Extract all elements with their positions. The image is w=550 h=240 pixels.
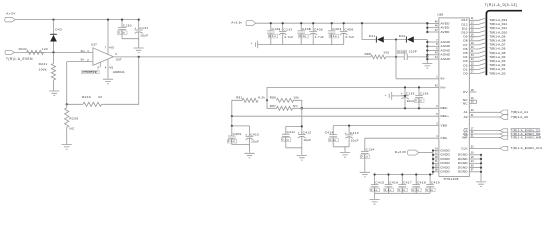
- node rail/diode junction: [361, 22, 363, 24]
- svg-text:0.1u: 0.1u: [412, 188, 419, 192]
- wire DVDD pin 4: [433, 162, 439, 164]
- svg-text:NC: NC: [463, 101, 468, 105]
- resistor R87 (NC): [277, 106, 293, 110]
- ADC U38 body: [439, 18, 469, 177]
- diode D22: [405, 36, 407, 42]
- wire clock pin CLK: [469, 147, 500, 149]
- node C409 rail junction: [231, 125, 233, 127]
- svg-text:+: +: [298, 130, 300, 134]
- resistor R81: [242, 98, 258, 102]
- svg-text:0.1u: 0.1u: [282, 137, 289, 141]
- ground below C414/C413: [340, 153, 350, 158]
- svg-text:A0: A0: [464, 115, 468, 119]
- wire digital ground stub: [374, 193, 376, 199]
- svg-text:D22: D22: [399, 34, 406, 38]
- svg-text:D0: D0: [463, 71, 467, 75]
- resistor R240: [83, 102, 102, 106]
- capacitor C405: [297, 23, 305, 44]
- svg-text:+: +: [385, 93, 387, 97]
- svg-text:DVDD: DVDD: [441, 170, 451, 174]
- capacitor C132: [267, 23, 275, 44]
- resistor R86: [277, 98, 294, 102]
- svg-text:REF+: REF+: [441, 114, 450, 118]
- svg-text:DISABLE: DISABLE: [82, 70, 97, 74]
- svg-text:R81: R81: [236, 96, 242, 100]
- wire to IN+ pin: [267, 87, 439, 100]
- node +VS rail junction: [107, 19, 109, 21]
- svg-text:10uF: 10uF: [351, 138, 359, 142]
- svg-text:C413: C413: [350, 131, 359, 135]
- capacitor C409: [228, 126, 236, 145]
- node REF+/R81 junction: [231, 115, 233, 117]
- svg-text:R88: R88: [365, 52, 371, 56]
- svg-text:R86: R86: [270, 96, 276, 100]
- wire control pin WR: [469, 137, 500, 139]
- svg-text:220P: 220P: [409, 50, 417, 54]
- ground below C415-C419: [370, 200, 380, 205]
- svg-text:C131: C131: [140, 26, 149, 30]
- diode D21: [375, 36, 377, 42]
- svg-text:C406: C406: [314, 27, 323, 31]
- wire AGND bus vertical: [426, 40, 428, 64]
- capacitor C407: [328, 23, 336, 44]
- wire data pin D6: [469, 47, 485, 49]
- svg-text:DGND: DGND: [458, 170, 468, 174]
- svg-text:OV: OV: [463, 90, 469, 94]
- svg-text:CML: CML: [441, 136, 448, 140]
- wire DVDD pin 3: [433, 158, 439, 160]
- capacitor C411: [282, 126, 290, 147]
- svg-text:T(R)1-A_A0: T(R)1-A_A0: [511, 115, 528, 119]
- ground below R241: [49, 91, 59, 96]
- node clamp junction: [395, 38, 397, 40]
- capacitor C134: [361, 138, 369, 171]
- connector tag T(R)1-A_EVEN_OE: [500, 132, 508, 136]
- svg-text:U37: U37: [91, 43, 97, 47]
- wire data pin D0: [469, 72, 485, 74]
- wire AVDD pin 2: [427, 27, 439, 29]
- svg-text:REF-: REF-: [441, 106, 449, 110]
- capacitor C412: [298, 126, 306, 147]
- wire bank ground rail: [258, 44, 344, 46]
- node signal/clamp junction: [395, 56, 397, 58]
- capacitor C416: [385, 175, 393, 194]
- wire +VS vertical: [107, 20, 109, 55]
- svg-text:R240: R240: [82, 95, 91, 99]
- ground below C411/C412: [297, 156, 307, 161]
- svg-text:D21: D21: [369, 34, 376, 38]
- wire OVR pin stub: [469, 91, 476, 93]
- connector tag T(R)1-A_A1: [500, 110, 508, 115]
- wire address pin A1: [469, 111, 500, 113]
- capacitor C406: [309, 23, 317, 44]
- capacitor C413: [345, 126, 353, 147]
- wire DGND pin 4: [469, 167, 481, 169]
- svg-text:10uF: 10uF: [303, 138, 311, 142]
- ground below C130/C131: [134, 48, 144, 53]
- svg-text:4.7uF: 4.7uF: [284, 35, 293, 39]
- capacitor C136: [415, 87, 423, 108]
- svg-text:330: 330: [383, 51, 389, 55]
- svg-text:T(R)1-A_EVEN: T(R)1-A_EVEN: [6, 57, 33, 61]
- wire to IN- pin: [396, 78, 439, 80]
- svg-text:0.1u: 0.1u: [415, 99, 422, 103]
- svg-text:C418: C418: [417, 181, 426, 185]
- wire AGND pin 2: [427, 45, 439, 47]
- wire feedback vertical: [102, 57, 139, 104]
- wire R240 to inverting input: [67, 62, 83, 105]
- capacitor C418: [412, 175, 420, 194]
- wire DVDD vertical: [432, 151, 434, 175]
- wire CML net to pin 4: [365, 137, 439, 139]
- svg-text:T(R)1-A_EVEN_WR: T(R)1-A_EVEN_WR: [511, 135, 542, 139]
- wire data pin D7: [469, 43, 485, 45]
- ground below op-amp: [103, 79, 113, 84]
- svg-text:C419: C419: [431, 181, 440, 185]
- svg-text:0.1u: 0.1u: [361, 155, 368, 159]
- capacitor C133: [279, 23, 287, 44]
- svg-text:120: 120: [42, 47, 48, 51]
- svg-text:OUT: OUT: [116, 58, 122, 62]
- capacitor C131: [135, 20, 143, 39]
- svg-text:U38: U38: [437, 12, 443, 16]
- wire op-amp output: [113, 56, 370, 58]
- connector tag T(R)1-A_EVEN_CS: [500, 129, 508, 132]
- node R81/R86/IN+ junction: [266, 99, 268, 101]
- svg-text:+: +: [340, 27, 342, 31]
- ground below R239: [62, 145, 72, 150]
- wire REF+ net to pin 5: [232, 115, 439, 117]
- svg-text:A+5V: A+5V: [6, 11, 16, 15]
- wire rail to clamp diodes: [362, 23, 376, 39]
- connector tag T(R)1-A_EVEN: [5, 50, 14, 54]
- svg-text:C134: C134: [366, 147, 375, 151]
- svg-text:CLK: CLK: [461, 146, 468, 150]
- wire DGND pin 2: [469, 158, 481, 160]
- wire DVDD pin 6: [433, 171, 439, 173]
- capacitor C139: [404, 54, 407, 60]
- wire REF- to decoupling rail: [286, 108, 302, 126]
- svg-text:T(R)1-A_D[0-13]: T(R)1-A_D[0-13]: [485, 3, 518, 7]
- wire AVDD pin 3: [427, 31, 439, 33]
- wire DVDD pin 2: [433, 154, 439, 156]
- svg-text:A+3.3v: A+3.3v: [231, 21, 242, 25]
- wire DVDD pin 1: [433, 150, 439, 152]
- svg-text:100k: 100k: [39, 68, 47, 72]
- svg-text:+: +: [245, 132, 247, 136]
- wire AGND pin 5: [427, 58, 439, 60]
- svg-text:0.1u: 0.1u: [398, 188, 405, 192]
- wire NC pin stubs: [469, 100, 476, 103]
- capacitor C417: [399, 175, 407, 194]
- svg-text:IN-: IN-: [441, 77, 446, 81]
- ground for DGND pins: [476, 182, 486, 187]
- svg-text:C409: C409: [233, 132, 242, 136]
- svg-text:C415: C415: [375, 181, 384, 185]
- wire R86 to REF- corner: [294, 100, 302, 108]
- svg-text:C408: C408: [345, 27, 354, 31]
- capacitor C130: [118, 20, 126, 39]
- capacitor C415: [371, 175, 379, 194]
- capacitor C419: [426, 175, 434, 194]
- svg-text:IN+: IN+: [441, 85, 446, 89]
- svg-text:R239: R239: [69, 117, 78, 121]
- wire +5V rail: [15, 19, 139, 21]
- node C139/AGND junction: [426, 56, 428, 58]
- svg-text:0.1u: 0.1u: [426, 188, 433, 192]
- wire R81 left to REF+ net: [232, 100, 242, 116]
- resistor R241: [51, 64, 55, 81]
- node AVDD rail junction: [426, 22, 428, 24]
- connector tag T(R)1-A_EVEN_WR: [500, 136, 508, 139]
- svg-text:D43: D43: [55, 28, 62, 32]
- diode D43: [50, 33, 57, 35]
- wire C411/C412 ground rail: [286, 148, 302, 155]
- wire C414/C413 ground rail: [333, 147, 349, 152]
- wire R88 to C139: [386, 56, 405, 58]
- node input junction: [52, 51, 54, 53]
- wire data pin D11: [469, 27, 485, 29]
- svg-text:C410: C410: [250, 132, 259, 136]
- svg-text:IN-: IN-: [81, 58, 85, 62]
- svg-text:IN+: IN+: [81, 49, 86, 53]
- svg-text:T(R)1-A_A1: T(R)1-A_A1: [511, 110, 528, 114]
- wire D21 anode to node: [384, 39, 407, 41]
- wire D+3.3V to DVDD: [419, 152, 433, 154]
- svg-text:33: 33: [98, 95, 102, 99]
- wire data pin D3: [469, 59, 485, 61]
- svg-text:R241: R241: [39, 62, 48, 66]
- resistor R88: [371, 55, 386, 59]
- svg-text:R87: R87: [270, 104, 276, 108]
- wire DGND pin 5: [469, 171, 481, 173]
- svg-text:C133: C133: [284, 27, 293, 31]
- svg-text:C416: C416: [389, 181, 398, 185]
- wire address pin A0: [469, 116, 500, 118]
- wire AGND pin 4: [427, 54, 439, 56]
- capacitor C410: [246, 126, 254, 145]
- wire input net: [14, 51, 93, 53]
- ground below C409/C410: [244, 153, 254, 158]
- svg-text:VBG: VBG: [441, 123, 448, 127]
- wire C409/C410 ground rail: [232, 145, 250, 153]
- svg-text:10uF: 10uF: [407, 99, 415, 103]
- wire VBG net to pin 3: [333, 125, 439, 127]
- svg-text:THS1408: THS1408: [443, 177, 459, 181]
- bus T(R)1-A_D[0-13]: [486, 11, 522, 76]
- svg-text:+: +: [309, 27, 311, 31]
- wire control pin OE: [469, 133, 500, 135]
- connector tag T(R)1-A_EVEN_CLK: [500, 146, 508, 150]
- svg-text:10k: 10k: [293, 96, 299, 100]
- svg-text:T(R)1-A_D0: T(R)1-A_D0: [489, 71, 506, 75]
- svg-text:-VS: -VS: [109, 66, 114, 70]
- svg-text:+: +: [135, 26, 137, 30]
- wire data pin D12: [469, 23, 485, 25]
- svg-text:+VS: +VS: [109, 46, 114, 50]
- svg-text:C136: C136: [420, 91, 429, 95]
- node REF- junction: [301, 107, 303, 109]
- svg-text:8.2k: 8.2k: [258, 96, 265, 100]
- wire -VS vertical: [107, 59, 109, 78]
- wire control pin CS: [469, 130, 500, 132]
- wire REF- net to pin 6: [293, 107, 439, 109]
- wire cap bottoms to ground: [122, 39, 139, 48]
- svg-text:NC: NC: [293, 104, 298, 108]
- wire data pin D1: [469, 68, 485, 70]
- wire AVDD vertical tie: [426, 23, 428, 32]
- svg-text:AD8041: AD8041: [113, 70, 125, 74]
- resistor R239: [65, 108, 69, 128]
- svg-text:C139: C139: [398, 50, 406, 54]
- svg-text:D+3.3V: D+3.3V: [395, 150, 407, 154]
- wire AGND pin 3: [427, 50, 439, 52]
- wire data pin D13: [469, 18, 485, 20]
- svg-text:WR: WR: [462, 135, 468, 139]
- op-amp U37: [93, 48, 114, 66]
- svg-text:4.7uF: 4.7uF: [315, 35, 324, 39]
- svg-text:R242: R242: [19, 47, 27, 51]
- svg-text:+: +: [401, 92, 403, 96]
- svg-text:A1: A1: [464, 110, 468, 114]
- node feedback/R239 junction: [66, 103, 68, 105]
- wire DVDD pin 5: [433, 167, 439, 169]
- svg-text:T(R)1-A_EVEN_CLK: T(R)1-A_EVEN_CLK: [511, 146, 543, 150]
- svg-text:0.1u: 0.1u: [330, 34, 337, 38]
- svg-text:+: +: [279, 27, 281, 31]
- wire data pin D9: [469, 35, 485, 37]
- svg-text:0.1u: 0.1u: [269, 34, 276, 38]
- wire REF+ to decoupling rail: [231, 116, 233, 126]
- svg-text:10uF: 10uF: [140, 33, 148, 37]
- svg-text:AGND: AGND: [441, 57, 451, 61]
- node C130 rail junction: [121, 19, 123, 21]
- capacitor C414: [329, 126, 337, 147]
- wire DGND pin 3: [469, 162, 481, 164]
- wire DGND pin 1: [469, 154, 481, 156]
- resistor R242: [27, 50, 44, 54]
- wire DGND vertical: [480, 155, 482, 181]
- svg-text:0.1u: 0.1u: [371, 188, 378, 192]
- capacitor C408: [340, 23, 348, 44]
- node output feedback junction: [138, 56, 140, 58]
- svg-text:+: +: [345, 131, 347, 135]
- svg-text:C417: C417: [403, 181, 412, 185]
- wire R87 row: [267, 100, 277, 108]
- wire data pin D8: [469, 39, 485, 41]
- svg-text:+: +: [251, 41, 253, 45]
- ground for AGND pins: [422, 64, 432, 69]
- wire data pin D10: [469, 31, 485, 33]
- svg-text:C130: C130: [123, 23, 132, 27]
- connector tag T(R)1-A_A0: [500, 115, 508, 120]
- wire AGND pin 1: [427, 41, 439, 43]
- wire digital cap rail: [375, 174, 433, 176]
- wire clamp vertical: [395, 40, 397, 79]
- wire C409/C410 rail: [232, 125, 250, 127]
- svg-text:AVDD: AVDD: [441, 30, 451, 34]
- svg-text:10uF: 10uF: [251, 140, 259, 144]
- svg-text:C411: C411: [287, 130, 296, 134]
- svg-text:C414: C414: [325, 131, 334, 135]
- wire data pin D2: [469, 64, 485, 66]
- wire digital cap ground rail: [375, 192, 431, 194]
- ground below C134: [360, 172, 370, 177]
- svg-text:0.1u: 0.1u: [118, 31, 125, 35]
- svg-text:C135: C135: [406, 92, 415, 96]
- svg-text:4.7uF: 4.7uF: [345, 35, 354, 39]
- node +5V/D43 junction: [52, 19, 54, 21]
- wire data pin D4: [469, 55, 485, 57]
- wire AVDD pin 1: [427, 22, 439, 24]
- wire D22 anode to AGND line: [414, 39, 428, 41]
- wire data pin D5: [469, 51, 485, 53]
- svg-text:0.1u: 0.1u: [228, 139, 235, 143]
- node C131 rail junction: [138, 19, 140, 21]
- svg-text:0.1u: 0.1u: [329, 138, 336, 142]
- wire analog 3.3V rail: [256, 22, 428, 24]
- svg-text:0.1u: 0.1u: [385, 188, 392, 192]
- svg-text:0.1u: 0.1u: [299, 34, 306, 38]
- capacitor C135: [401, 87, 409, 108]
- svg-text:NC: NC: [69, 126, 75, 130]
- wire D43 vertical: [53, 20, 55, 53]
- wire C139 to AGND line: [407, 56, 427, 58]
- svg-text:C412: C412: [303, 130, 312, 134]
